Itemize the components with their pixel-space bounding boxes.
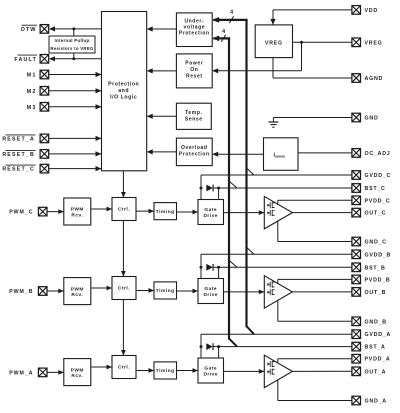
svg-text:Timing: Timing <box>156 368 175 374</box>
svg-text:Temp.: Temp. <box>185 110 202 116</box>
svg-text:Sense: Sense <box>185 117 203 123</box>
svg-text:4: 4 <box>222 29 225 35</box>
svg-text:Gate: Gate <box>204 286 217 292</box>
svg-text:RESET_B: RESET_B <box>2 152 35 158</box>
svg-text:PWM: PWM <box>71 207 84 213</box>
svg-text:PWM_A: PWM_A <box>9 370 33 376</box>
svg-text:GND_A: GND_A <box>365 399 387 405</box>
svg-text:Ctrl.: Ctrl. <box>118 286 130 292</box>
svg-text:BST_B: BST_B <box>365 265 386 271</box>
svg-text:Power: Power <box>185 61 203 67</box>
svg-text:Drive: Drive <box>203 213 218 219</box>
svg-text:GVDD_C: GVDD_C <box>365 173 392 179</box>
svg-text:PVDD_B: PVDD_B <box>365 277 391 283</box>
svg-text:Internal Pullup: Internal Pullup <box>55 38 90 43</box>
svg-text:Rcv.: Rcv. <box>71 213 83 219</box>
svg-text:Ctrl.: Ctrl. <box>118 365 130 371</box>
svg-text:VREG: VREG <box>365 40 383 46</box>
svg-text:Rcv.: Rcv. <box>71 373 83 379</box>
svg-text:Gate: Gate <box>204 366 217 372</box>
svg-text:Timing: Timing <box>156 209 175 215</box>
svg-text:OUT_B: OUT_B <box>365 290 387 296</box>
svg-text:PWM: PWM <box>71 367 84 373</box>
svg-text:BST_C: BST_C <box>365 186 386 192</box>
svg-text:Protection: Protection <box>108 82 139 88</box>
svg-text:M3: M3 <box>27 105 37 111</box>
svg-text:Drive: Drive <box>203 292 218 298</box>
svg-text:RESET_A: RESET_A <box>2 136 35 142</box>
svg-text:Ctrl.: Ctrl. <box>118 207 130 213</box>
svg-text:GVDD_A: GVDD_A <box>365 332 392 338</box>
svg-text:RESET_C: RESET_C <box>2 167 35 173</box>
svg-text:Rcv.: Rcv. <box>71 292 83 298</box>
svg-text:and: and <box>118 88 129 94</box>
svg-text:VDD: VDD <box>365 8 378 14</box>
svg-text:PVDD_A: PVDD_A <box>365 357 391 363</box>
svg-text:PVDD_C: PVDD_C <box>365 198 391 204</box>
svg-text:GND: GND <box>365 116 379 122</box>
svg-text:M2: M2 <box>27 89 37 95</box>
svg-text:Timing: Timing <box>156 288 175 294</box>
svg-text:Protection: Protection <box>179 31 210 37</box>
svg-text:Reset: Reset <box>186 74 203 80</box>
svg-text:GND_B: GND_B <box>365 319 387 325</box>
svg-text:AGND: AGND <box>365 76 384 82</box>
svg-text:4: 4 <box>230 10 233 16</box>
svg-text:On: On <box>190 67 198 73</box>
svg-text:OUT_A: OUT_A <box>365 369 387 375</box>
svg-text:Protection: Protection <box>179 152 210 158</box>
svg-text:PWM_B: PWM_B <box>9 289 33 295</box>
svg-text:Drive: Drive <box>203 372 218 378</box>
svg-text:FAULT: FAULT <box>14 57 37 63</box>
svg-text:M1: M1 <box>27 73 37 79</box>
svg-text:Resistors to VREG: Resistors to VREG <box>50 46 94 51</box>
svg-text:PWM: PWM <box>71 286 84 292</box>
svg-text:OUT_C: OUT_C <box>365 211 387 217</box>
svg-text:PWM_C: PWM_C <box>9 210 33 216</box>
svg-text:GND_C: GND_C <box>365 240 387 246</box>
svg-text:OC_ADJ: OC_ADJ <box>365 151 391 157</box>
svg-text:Overload: Overload <box>181 145 207 151</box>
svg-text:VREG: VREG <box>265 40 283 46</box>
svg-text:Gate: Gate <box>204 207 217 213</box>
svg-text:GVDD_B: GVDD_B <box>365 252 392 258</box>
svg-text:OTW: OTW <box>21 27 37 33</box>
svg-text:BST_A: BST_A <box>365 345 386 351</box>
svg-text:I/O Logic: I/O Logic <box>110 95 137 101</box>
